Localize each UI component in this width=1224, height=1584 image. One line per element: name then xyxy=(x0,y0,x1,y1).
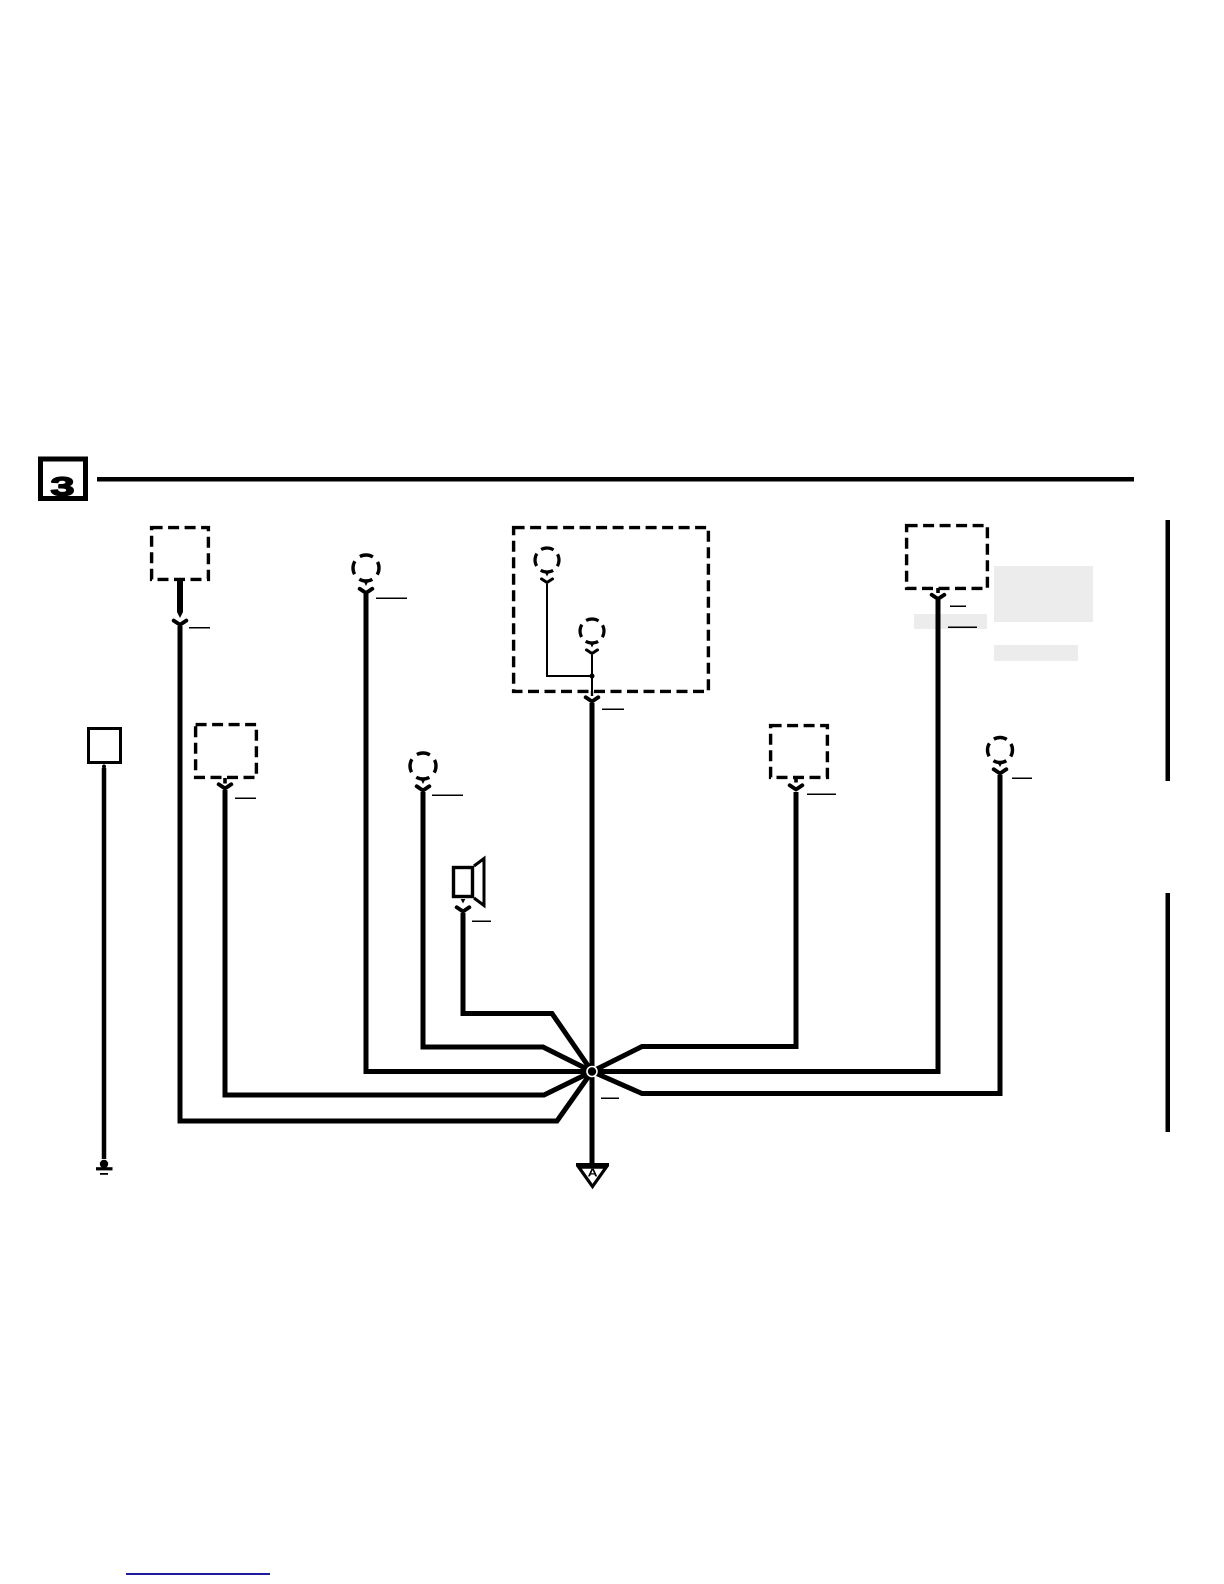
chevron arrow below MB xyxy=(586,697,599,701)
chevron arrow on B1 wire xyxy=(174,621,187,625)
connector box B1 (dashed, top left) xyxy=(152,528,209,580)
greeked text block right of connector X253 (large) xyxy=(994,566,1093,622)
label line on C1 wire xyxy=(376,598,407,600)
connector circle C3 (dashed, far right) xyxy=(988,738,1013,768)
label line 1 on X255 wire xyxy=(950,606,966,608)
page edge bar upper right xyxy=(1166,520,1171,781)
wire from SB to chassis ground xyxy=(102,768,107,1159)
chevron arrow on C1 wire xyxy=(360,589,373,593)
pin stub below MB xyxy=(591,691,593,696)
thin wire from CB to bottom of MB xyxy=(591,655,593,696)
wire W5 from SP to ground junction xyxy=(463,913,592,1072)
connector circle C1 (dashed) xyxy=(353,555,379,586)
section marker box "3" xyxy=(41,459,86,499)
chevron arrow on C2 wire xyxy=(417,786,430,790)
wire stub from B1 with arrow tip xyxy=(177,580,183,618)
speaker SP symbol xyxy=(454,859,485,906)
wire W4 from C2 to ground junction xyxy=(423,792,592,1072)
greeked text block lower right of X253 xyxy=(994,645,1078,661)
chevron arrow under B2 xyxy=(219,784,232,788)
component box B2 (dashed, left) xyxy=(196,725,257,778)
main ground wire from MB through junction to ground triangle xyxy=(590,703,595,1163)
component box MB (dashed, centre, lamp cluster) xyxy=(514,528,709,692)
chevron arrow on SP wire xyxy=(457,907,470,911)
wire WC from C3 to ground junction xyxy=(592,775,1000,1094)
wire W3 from C1 to ground junction xyxy=(366,594,592,1072)
connector circle C2 (dashed) xyxy=(410,753,436,784)
label line on RB wire xyxy=(807,794,836,796)
chevron arrow under X255 xyxy=(932,595,945,599)
ground junction node (white centre) xyxy=(587,1067,597,1077)
label line on MB wire xyxy=(602,709,624,711)
wire WB from X255 to ground junction xyxy=(592,600,938,1072)
internal junction dot in MB xyxy=(590,674,595,679)
pin stub under X255 xyxy=(936,588,940,593)
label line on B2 wire xyxy=(235,798,256,800)
header rule line xyxy=(97,477,1134,482)
label line on SP wire xyxy=(472,921,491,923)
chassis ground symbol xyxy=(96,1160,113,1175)
chevron arrow on C3 wire xyxy=(994,769,1007,773)
chevron arrow under RB xyxy=(790,785,803,789)
wire W1 from B1 to ground junction xyxy=(180,626,592,1121)
lamp circle CB inside MB xyxy=(580,619,604,648)
label line on C2 wire xyxy=(432,795,463,797)
label line on B1 wire xyxy=(189,627,210,629)
wire WA from RB to ground junction xyxy=(592,792,796,1072)
thin wire from CA to internal node xyxy=(547,584,592,676)
label line 2 on X255 wire xyxy=(948,627,977,629)
lamp circle CA inside MB xyxy=(535,548,559,577)
blue hyperlink rule bottom left xyxy=(126,1573,270,1575)
page edge bar lower right xyxy=(1166,893,1171,1132)
pin stub under RB xyxy=(794,777,798,783)
label line below junction xyxy=(601,1098,619,1100)
pin dot under SB xyxy=(102,765,106,769)
label line on C3 wire xyxy=(1012,778,1032,780)
ground triangle A xyxy=(576,1163,609,1187)
chevron arrow under CA xyxy=(542,579,553,583)
module box SB (solid, far left) xyxy=(89,729,121,763)
pin stub under B2 xyxy=(223,778,227,784)
wire W2 from B2 to ground junction xyxy=(225,790,592,1095)
chevron arrow under CB xyxy=(587,650,598,654)
component box RB (dashed, right) xyxy=(771,726,828,778)
connector box X255 (dashed, top right) xyxy=(907,526,988,589)
greeked text block left of wire at X253 xyxy=(914,614,987,629)
